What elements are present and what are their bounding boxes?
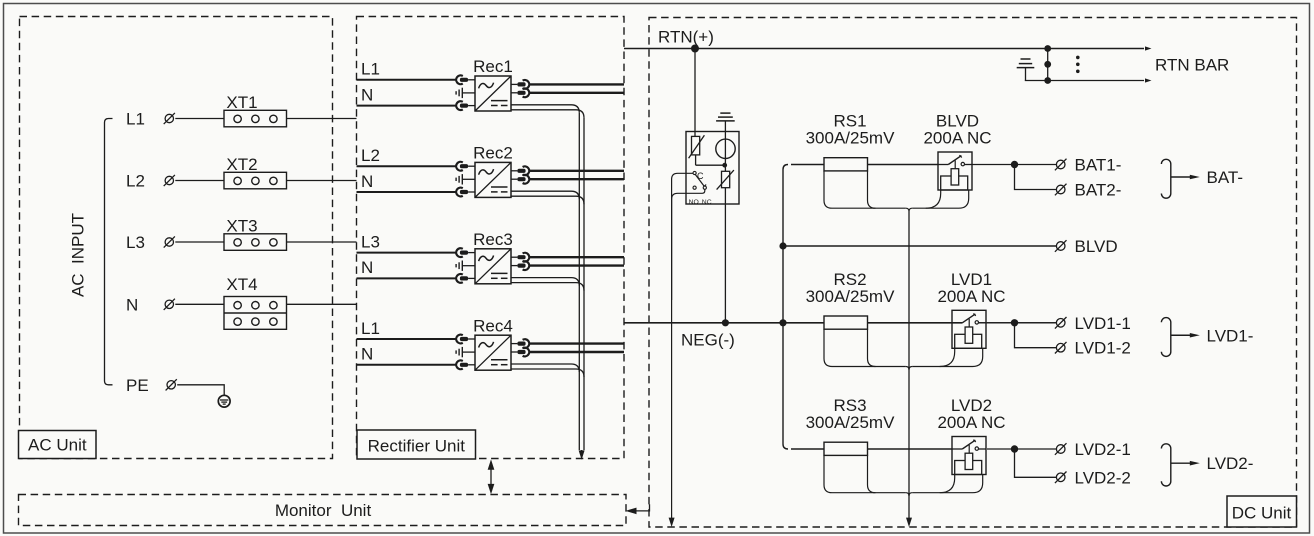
svg-text:L1: L1 — [126, 110, 145, 129]
svg-text:XT4: XT4 — [226, 275, 257, 294]
svg-text:PE: PE — [126, 376, 149, 395]
svg-text:LVD1-: LVD1- — [1207, 326, 1254, 345]
svg-text:LVD2-: LVD2- — [1207, 454, 1254, 473]
svg-text:C: C — [697, 171, 704, 181]
svg-text:N: N — [361, 258, 373, 277]
svg-text:BAT1-: BAT1- — [1075, 156, 1122, 175]
svg-text:L1: L1 — [361, 60, 380, 79]
svg-text:RTN BAR: RTN BAR — [1155, 55, 1229, 74]
svg-text:BLVD: BLVD — [1075, 237, 1118, 256]
svg-text:L1: L1 — [361, 319, 380, 338]
svg-text:DC Unit: DC Unit — [1232, 504, 1292, 523]
svg-text:LVD2-2: LVD2-2 — [1075, 468, 1131, 487]
svg-text:BAT-: BAT- — [1207, 168, 1244, 187]
svg-text:300A/25mV: 300A/25mV — [806, 287, 895, 306]
svg-text:AC INPUT: AC INPUT — [69, 213, 88, 297]
svg-text:RTN(+): RTN(+) — [658, 27, 714, 46]
svg-text:NC: NC — [702, 199, 712, 206]
svg-text:N: N — [361, 85, 373, 104]
svg-text:L2: L2 — [126, 172, 145, 191]
svg-text:AC Unit: AC Unit — [28, 436, 87, 455]
svg-text:L2: L2 — [361, 146, 380, 165]
svg-text:200A NC: 200A NC — [937, 413, 1005, 432]
svg-text:L3: L3 — [361, 232, 380, 251]
svg-text:N: N — [361, 172, 373, 191]
svg-text:XT1: XT1 — [226, 93, 257, 112]
svg-text:Rectifier Unit: Rectifier Unit — [368, 436, 466, 455]
svg-text:Rec2: Rec2 — [473, 144, 513, 163]
svg-text:300A/25mV: 300A/25mV — [806, 129, 895, 148]
svg-text:LVD1-2: LVD1-2 — [1075, 339, 1131, 358]
svg-text:Rec1: Rec1 — [473, 57, 513, 76]
svg-text:BAT2-: BAT2- — [1075, 181, 1122, 200]
svg-text:300A/25mV: 300A/25mV — [806, 413, 895, 432]
svg-text:N: N — [126, 295, 138, 314]
svg-text:XT2: XT2 — [226, 155, 257, 174]
svg-text:Rec4: Rec4 — [473, 316, 513, 335]
svg-text:NO: NO — [689, 199, 699, 206]
svg-text:200A NC: 200A NC — [937, 287, 1005, 306]
svg-text:NEG(-): NEG(-) — [681, 331, 735, 350]
svg-text:Rec3: Rec3 — [473, 230, 513, 249]
svg-text:200A NC: 200A NC — [923, 129, 991, 148]
svg-text:LVD1-1: LVD1-1 — [1075, 314, 1131, 333]
svg-text:LVD2-1: LVD2-1 — [1075, 440, 1131, 459]
svg-text:XT3: XT3 — [226, 217, 257, 236]
svg-text:N: N — [361, 345, 373, 364]
svg-text:Monitor Unit: Monitor Unit — [275, 501, 372, 520]
svg-text:L3: L3 — [126, 233, 145, 252]
